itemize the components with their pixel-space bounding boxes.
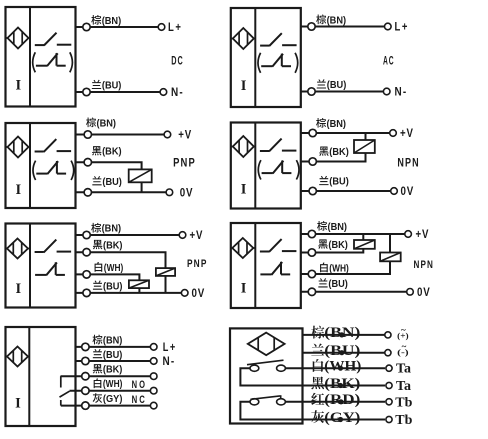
label Tb second (U8) — [395, 413, 412, 428]
terminal circle BU start (U5) — [83, 289, 90, 296]
label BN brown (U3) — [86, 117, 116, 129]
wire BU blue (U2) — [301, 91, 384, 93]
label WH white (U6) — [320, 263, 349, 275]
terminal 0V circle (U6) — [407, 289, 414, 296]
proximity sensor symbol U3 — [6, 137, 31, 158]
sensor core label I (U1) — [15, 78, 21, 94]
svg-text:NPN: NPN — [414, 259, 435, 271]
junction dot BK (U8) — [338, 383, 343, 388]
label ~(+) (U8) — [397, 325, 409, 340]
terminal N- circle (U7) — [150, 358, 157, 365]
label Ta second (U8) — [396, 379, 411, 394]
label BK black (U6) — [318, 239, 348, 250]
wire BU blue (U5) — [76, 292, 182, 294]
terminal circle WH start (U7) — [82, 387, 89, 394]
terminal circle BN start (U3) — [84, 131, 91, 138]
svg-text:I: I — [241, 78, 247, 94]
svg-text:(WH): (WH) — [329, 263, 349, 274]
terminal Ta2 circle (U8) — [386, 382, 392, 388]
svg-text:(BN): (BN) — [102, 224, 122, 235]
wire BK black (U5) — [76, 252, 166, 293]
svg-text:+V: +V — [416, 227, 430, 241]
svg-text:(BU): (BU) — [329, 177, 349, 188]
switch SW2 right contact (U8) — [277, 399, 286, 405]
proximity sensor symbol U7 — [6, 347, 30, 367]
terminal circle BN start (U4) — [309, 129, 316, 136]
terminal +V circle (U4) — [390, 130, 397, 137]
terminal circle BN start (U2) — [308, 23, 315, 30]
load resistor RL6 (U6) — [380, 253, 401, 262]
proximity sensor symbol U1 — [6, 28, 31, 49]
switch SW2 left contact (U8) — [250, 399, 259, 405]
switch SW1 right contact (U8) — [277, 365, 286, 371]
svg-text:Tb: Tb — [395, 413, 412, 428]
terminal tilde-minus circle (U8) — [385, 350, 391, 356]
label BK black (U5) — [93, 240, 123, 251]
terminal circle WH start (U6) — [308, 270, 315, 277]
terminal Tb2 circle (U8) — [386, 416, 392, 422]
label 0V (U5) — [192, 286, 206, 300]
load resistor RL3 (U5) — [156, 268, 175, 276]
sensor box U4 (NPN 3-wire) — [231, 123, 301, 209]
sensor core label I (U7) — [15, 396, 21, 412]
svg-text:PNP: PNP — [187, 258, 208, 270]
label 0V (U4) — [401, 184, 415, 198]
sensor core label I (U3) — [15, 182, 21, 198]
wire WH white NO (U7) — [70, 390, 151, 392]
svg-text:NPN: NPN — [397, 155, 419, 169]
svg-text:(BN): (BN) — [328, 222, 348, 233]
terminal circle BU start (U6) — [308, 288, 315, 295]
terminal tilde-plus circle (U8) — [385, 332, 391, 338]
label GY grey serif (U8) — [311, 410, 360, 426]
terminal N- circle (U2) — [383, 88, 390, 95]
programmable output symbol (U1) — [33, 52, 73, 72]
label AC (U2) — [383, 54, 394, 68]
label ~(-) (U8) — [397, 341, 409, 357]
terminal circle BN start (U5) — [83, 231, 90, 238]
load resistor RL5 (U6) — [354, 240, 375, 249]
svg-text:(BU): (BU) — [103, 281, 123, 292]
sensor box U2 (AC 2-wire) — [231, 8, 301, 107]
svg-text:PNP: PNP — [173, 156, 196, 170]
svg-text:(+): (+) — [397, 332, 409, 341]
label BN brown (U7) — [92, 335, 122, 347]
proximity sensor symbol U2 — [231, 28, 256, 49]
sensor box U7 (relay output) — [6, 327, 76, 426]
svg-text:0V: 0V — [192, 286, 206, 300]
label WH white (U7) — [94, 378, 123, 390]
terminal circle BU start (U1) — [83, 88, 90, 95]
svg-text:(WH): (WH) — [103, 379, 123, 390]
switch contact NO (U5) — [35, 240, 72, 253]
label 0V (U6) — [417, 285, 431, 299]
svg-text:I: I — [15, 78, 21, 94]
switch SW2 common L-wire to GY (U8) — [240, 402, 302, 420]
label BN brown (U6) — [317, 221, 347, 233]
wire BK black (U6) — [301, 234, 364, 253]
label BN brown (U4) — [316, 118, 346, 130]
label +V (U5) — [190, 228, 204, 242]
svg-text:(WH): (WH) — [324, 359, 361, 375]
svg-text:(BK): (BK) — [103, 365, 123, 376]
svg-text:I: I — [241, 182, 247, 198]
junction dot BN (U8) — [339, 332, 344, 337]
switch contact antivalent (U5) — [35, 262, 65, 275]
wire BN brown (U8) — [303, 334, 386, 336]
programmable output symbol (U4) — [258, 160, 299, 179]
svg-text:(BN): (BN) — [327, 119, 347, 130]
label BU blue (U1) — [92, 80, 122, 92]
svg-text:L+: L+ — [395, 20, 410, 34]
wire BN brown (U2) — [301, 26, 385, 28]
wire BK black (U4) — [301, 133, 366, 162]
switch SW2 blade closed (U8) — [251, 395, 281, 399]
svg-text:Ta: Ta — [396, 362, 411, 377]
switch contact NO (U4) — [260, 139, 297, 152]
wire BK black (U3) — [76, 162, 142, 192]
label BN brown (U5) — [91, 223, 121, 235]
sensor core label I (U2) — [241, 78, 247, 94]
svg-text:(BU): (BU) — [327, 80, 347, 91]
svg-text:L+: L+ — [163, 340, 177, 354]
label BU blue (U2) — [317, 79, 347, 91]
label BU blue (U3) — [92, 176, 122, 188]
label BN brown (U2) — [316, 14, 346, 26]
label WH white (U5) — [95, 262, 124, 274]
terminal circle BN start (U6) — [308, 230, 315, 237]
svg-text:Ta: Ta — [396, 379, 411, 394]
svg-text:I: I — [15, 182, 21, 198]
terminal circle GY start (U7) — [82, 402, 89, 409]
proximity sensor symbol U8 — [248, 333, 285, 356]
wire BU blue (U3) — [76, 191, 167, 193]
relay changeover blade (U7) — [60, 391, 70, 397]
junction dot GY (U8) — [338, 417, 343, 422]
svg-text:(BN): (BN) — [103, 336, 123, 347]
svg-text:+V: +V — [400, 126, 414, 140]
label BU blue (U7) — [93, 349, 123, 361]
wire GY grey NC (U7) — [61, 405, 151, 407]
svg-text:I: I — [15, 281, 21, 297]
svg-text:(BK): (BK) — [329, 147, 349, 158]
wire BN brown (U7) — [76, 346, 151, 348]
relay NC lead (U7) — [60, 400, 62, 406]
terminal circle BU start (U4) — [309, 187, 316, 194]
terminal BK end circle (U7) — [150, 373, 157, 380]
svg-text:0V: 0V — [180, 185, 194, 199]
label L+ (U1) — [168, 20, 183, 34]
label L+ (U7) — [163, 340, 177, 354]
label BK black (U4) — [319, 146, 349, 157]
terminal circle WH start (U5) — [83, 271, 90, 278]
sensor box U1 (DC 2-wire) — [6, 7, 76, 107]
wire BK black (U7) — [61, 375, 151, 377]
junction dot WH (U8) — [338, 366, 343, 371]
svg-text:(BN): (BN) — [327, 15, 347, 26]
svg-text:(BN): (BN) — [97, 118, 117, 129]
label BN brown (U1) — [91, 15, 121, 27]
label Ta first (U8) — [396, 362, 411, 377]
label BU blue (U5) — [93, 281, 123, 293]
label 0V (U3) — [180, 185, 194, 199]
terminal circle BN start (U1) — [83, 23, 90, 30]
switch SW1 left contact (U8) — [250, 365, 259, 371]
svg-text:L+: L+ — [168, 20, 183, 34]
switch contact NO (U3) — [35, 139, 72, 152]
svg-text:(BU): (BU) — [102, 177, 122, 188]
terminal circle BK start (U3) — [84, 159, 91, 166]
wire BN brown (U1) — [76, 26, 159, 28]
sensor box U6 (NPN 4-wire) — [231, 223, 301, 308]
label BK black (U3) — [92, 146, 122, 157]
proximity sensor symbol U6 — [231, 238, 256, 258]
terminal Ta1 circle (U8) — [386, 365, 392, 371]
wire BU blue (U1) — [76, 91, 161, 93]
relay common lead (U7) — [60, 376, 62, 387]
svg-text:NC: NC — [132, 394, 147, 406]
load resistor RL1 (U3) — [129, 169, 152, 182]
wire BN brown (U3) — [76, 134, 165, 136]
terminal Tb1 circle (U8) — [386, 399, 392, 405]
svg-text:(GY): (GY) — [103, 394, 123, 405]
svg-text:+V: +V — [190, 228, 204, 242]
label NPN (U6) — [414, 259, 435, 271]
terminal circle BU start (U3) — [84, 189, 91, 196]
label N- (U1) — [171, 85, 184, 99]
svg-text:(BK): (BK) — [328, 240, 348, 251]
terminal L+ circle (U7) — [150, 344, 157, 351]
load resistor RL2 (U4) — [354, 140, 375, 153]
terminal L+ circle (U2) — [385, 23, 392, 30]
svg-text:I: I — [241, 281, 247, 297]
svg-text:(BK): (BK) — [103, 240, 123, 251]
sensor box U5 (PNP 4-wire) — [6, 224, 76, 308]
label +V (U3) — [178, 128, 192, 142]
label N- (U7) — [163, 354, 176, 368]
sensor core label I (U5) — [15, 281, 21, 297]
wire BU blue (U6) — [301, 291, 407, 293]
wire WH white (U6) — [301, 234, 390, 274]
wire WH white (U8) — [285, 367, 385, 369]
terminal 0V circle (U5) — [181, 290, 188, 297]
label PNP (U5) — [187, 258, 208, 270]
label RD red serif (U8) — [311, 392, 360, 408]
wire BU blue (U7) — [76, 360, 151, 362]
svg-text:DC: DC — [171, 53, 183, 67]
switch contact NO (U1) — [35, 33, 72, 46]
wire BU blue (U4) — [301, 190, 391, 192]
label NC (U7) — [132, 394, 147, 406]
terminal WH end circle (U7) — [150, 387, 157, 394]
sensor box U8 (6-wire) — [230, 328, 303, 423]
wire BK black (U8) — [303, 385, 386, 387]
svg-text:0V: 0V — [417, 285, 431, 299]
terminal L+ circle (U1) — [158, 24, 165, 31]
wire BN brown (U6) — [301, 233, 405, 235]
terminal +V circle (U6) — [405, 231, 412, 238]
wire RD red (U8) — [285, 401, 385, 403]
svg-text:(WH): (WH) — [104, 263, 124, 274]
junction dot RD (U8) — [338, 399, 343, 404]
svg-text:(BU): (BU) — [103, 350, 123, 361]
label GY grey (U7) — [93, 393, 123, 405]
load resistor RL4 (U5) — [129, 280, 149, 288]
svg-text:I: I — [15, 396, 21, 412]
sensor core label I (U4) — [241, 182, 247, 198]
switch contact NO (U2) — [260, 33, 297, 46]
sensor core label I (U6) — [241, 281, 247, 297]
terminal N- circle (U1) — [160, 89, 167, 96]
svg-text:(-): (-) — [397, 348, 409, 357]
svg-text:+V: +V — [178, 128, 192, 142]
label Tb first (U8) — [395, 395, 412, 410]
svg-text:N-: N- — [171, 85, 184, 99]
label NO (U7) — [132, 379, 147, 391]
label BU blue (U4) — [319, 176, 349, 188]
terminal GY end circle (U7) — [150, 402, 157, 409]
terminal 0V circle (U3) — [166, 189, 173, 196]
svg-text:(BU): (BU) — [328, 279, 348, 290]
svg-text:NO: NO — [132, 379, 147, 391]
svg-text:Tb: Tb — [395, 395, 412, 410]
junction dot BU (U8) — [339, 350, 344, 355]
label NPN (U4) — [397, 155, 419, 169]
switch SW1 common L-wire to BK (U8) — [240, 368, 302, 385]
proximity sensor symbol U5 — [6, 239, 31, 259]
label +V (U4) — [400, 126, 414, 140]
label BU blue (U6) — [318, 278, 348, 290]
terminal +V circle (U5) — [179, 232, 186, 239]
svg-text:(BU): (BU) — [102, 81, 122, 92]
terminal circle BK start (U7) — [82, 373, 89, 380]
wire BU blue (U8) — [303, 352, 386, 354]
switch SW1 blade open (U8) — [247, 360, 284, 365]
switch contact NO (U6) — [260, 239, 297, 252]
label BU blue serif (U8) — [311, 343, 360, 359]
terminal 0V circle (U4) — [391, 188, 398, 195]
svg-text:N-: N- — [163, 354, 176, 368]
terminal circle BK start (U6) — [308, 249, 315, 256]
svg-text:AC: AC — [383, 54, 394, 68]
label N- (U2) — [395, 85, 408, 99]
label DC (U1) — [171, 53, 183, 67]
programmable output symbol (U3) — [33, 161, 74, 180]
svg-text:(BK): (BK) — [102, 147, 122, 158]
label +V (U6) — [416, 227, 430, 241]
wire BN brown (U4) — [301, 132, 390, 134]
terminal circle BK start (U5) — [83, 249, 90, 256]
terminal circle BK start (U4) — [309, 158, 316, 165]
sensor box U3 (PNP 3-wire) — [6, 123, 76, 208]
label BK black (U7) — [93, 364, 123, 375]
wire WH white (U5) — [76, 274, 140, 293]
terminal circle BU start (U7) — [82, 357, 89, 364]
label WH white serif (U8) — [313, 359, 362, 375]
label BK black serif (U8) — [311, 376, 360, 392]
svg-text:N-: N- — [395, 85, 408, 99]
switch contact antivalent (U6) — [260, 262, 290, 275]
proximity sensor symbol U4 — [231, 136, 256, 157]
programmable output symbol (U2) — [258, 53, 298, 73]
terminal +V circle (U3) — [164, 131, 171, 138]
wire GY grey (U8) — [303, 419, 386, 421]
label L+ (U2) — [395, 20, 410, 34]
terminal circle BN start (U7) — [82, 343, 89, 350]
terminal circle BU start (U2) — [308, 88, 315, 95]
label PNP (U3) — [173, 156, 196, 170]
wire BN brown (U5) — [76, 234, 180, 236]
svg-text:0V: 0V — [401, 184, 415, 198]
label BN brown serif (U8) — [311, 325, 360, 341]
svg-text:(BN): (BN) — [102, 16, 122, 27]
